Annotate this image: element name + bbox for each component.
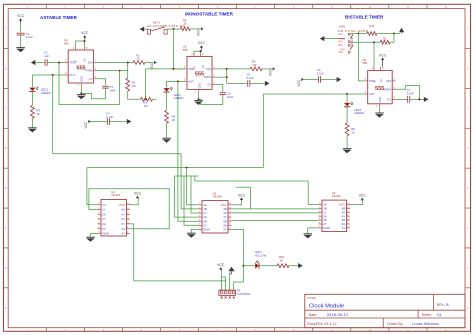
ground	[16, 47, 25, 49]
wire U3 3B to U4 2B	[231, 219, 318, 221]
wire C3 to gnd	[81, 88, 105, 99]
LED LED2 GREEN	[166, 81, 168, 87]
pin 8 4Y stub	[126, 233, 129, 235]
wire to U3 1Y	[191, 176, 199, 213]
svg-text:1K: 1K	[36, 112, 40, 116]
timer IC U8 555	[368, 70, 393, 103]
port arrow up	[399, 28, 404, 33]
svg-text:A: A	[467, 28, 469, 31]
wire gnd U1	[80, 86, 82, 93]
svg-text:0.1uF: 0.1uF	[317, 71, 324, 75]
wire CV to C7	[396, 98, 408, 100]
svg-text:R7: R7	[383, 36, 387, 40]
svg-text:GND: GND	[102, 232, 108, 236]
svg-text:3Y: 3Y	[102, 227, 106, 231]
wire R3 node to TRIG	[146, 68, 184, 70]
wire reset feed	[373, 42, 375, 67]
svg-text:CV: CV	[387, 98, 391, 102]
pin 8 VC stub	[200, 53, 202, 56]
pin 6 2Y stub	[319, 223, 322, 225]
node VCC U5	[200, 50, 202, 52]
wire	[243, 265, 255, 267]
svg-text:DIS: DIS	[206, 67, 211, 71]
node R3 junction	[145, 98, 147, 100]
svg-text:CONTROL: CONTROL	[237, 292, 251, 296]
pin 5 2B stub	[319, 219, 322, 221]
header P1 CONTROL body	[219, 290, 236, 295]
wire OUT left	[167, 80, 184, 82]
pin 11 4Y stub	[347, 215, 350, 217]
svg-text:R: R	[372, 80, 376, 82]
wire	[346, 136, 348, 149]
svg-text:GREEN: GREEN	[354, 111, 364, 115]
wire to P1	[134, 280, 226, 282]
svg-text:VCC: VCC	[268, 68, 272, 75]
svg-text:E: E	[5, 188, 7, 190]
pin 2 1B stub	[319, 207, 322, 209]
svg-text:THRS: THRS	[85, 69, 93, 73]
svg-text:5A: 5A	[122, 217, 126, 221]
svg-text:VCC: VCC	[134, 192, 142, 196]
svg-text:6Y: 6Y	[122, 212, 126, 216]
svg-text:EasyEDA V5.5.12: EasyEDA V5.5.12	[308, 322, 337, 326]
svg-text:2Y: 2Y	[102, 217, 106, 221]
svg-text:74LS32: 74LS32	[332, 194, 342, 198]
port arrow	[127, 119, 132, 124]
pin 3 1Y stub	[319, 211, 322, 213]
svg-text:OUT: OUT	[69, 73, 75, 77]
svg-text:D: D	[5, 148, 7, 150]
wire U3 4A to U4 1Y	[231, 212, 318, 214]
pin 2 1B stub	[199, 208, 202, 210]
wire U4 GND	[308, 228, 319, 234]
resistor R3 1M	[141, 97, 153, 101]
wire	[377, 33, 394, 35]
capacitor C1 1uF	[44, 59, 46, 66]
svg-text:GND: GND	[198, 83, 202, 89]
pin 7 GND stub	[319, 227, 322, 229]
wire U3 VCC	[231, 200, 241, 205]
pin 4 R stub	[193, 53, 195, 56]
svg-text:VC: VC	[201, 65, 205, 69]
wire to U3 2B	[178, 220, 199, 222]
wire	[31, 75, 33, 87]
pin 1 1A stub	[98, 204, 101, 206]
pin 14 VCC stub	[347, 204, 350, 206]
svg-text:74LS08: 74LS08	[213, 194, 223, 198]
wire DIS-THRS tie	[226, 69, 228, 77]
wire mid link	[194, 176, 196, 181]
node R11 junction	[393, 33, 395, 35]
capacitor C8 10nF	[220, 92, 227, 94]
pin 3 OUT stub	[364, 93, 367, 95]
svg-text:0.1uF: 0.1uF	[246, 76, 253, 80]
capacitor C6 0.1uF	[317, 76, 319, 83]
svg-text:E: E	[467, 188, 469, 190]
wire reset-to-vcc hook U1	[76, 41, 85, 47]
node TRIG junction	[58, 62, 60, 64]
svg-text:OUT: OUT	[369, 92, 375, 96]
pin 11 4Y stub	[228, 216, 231, 218]
svg-text:H: H	[467, 308, 469, 310]
svg-text:R11: R11	[369, 24, 374, 28]
wire to U3 2Y	[184, 176, 199, 225]
svg-text:4: 4	[191, 53, 193, 56]
svg-text:10nF: 10nF	[109, 89, 116, 93]
node LED4 junction	[242, 265, 244, 267]
pin 14 VCC stub	[126, 204, 129, 206]
wire U3 4B loop	[231, 187, 250, 209]
svg-text:0.1uF: 0.1uF	[26, 35, 33, 39]
capacitor C5 0.1uF	[247, 80, 249, 87]
wire trig feedback down	[58, 63, 60, 105]
pin 1 GND stub	[80, 83, 82, 86]
svg-text:TITLE:: TITLE:	[308, 296, 317, 300]
IC U2 74LS04 body	[101, 199, 126, 236]
svg-text:Sheet:: Sheet:	[422, 313, 432, 317]
wire	[180, 154, 182, 209]
wire	[145, 62, 154, 64]
svg-text:1: 1	[376, 105, 378, 108]
svg-text:GND: GND	[79, 76, 83, 82]
pin 13 4B stub	[228, 208, 231, 210]
svg-text:G: G	[5, 268, 7, 270]
IC U3 74LS08 body	[202, 201, 228, 233]
pin 5 2B stub	[199, 220, 202, 222]
node bus junction	[186, 167, 188, 169]
svg-text:F: F	[5, 228, 7, 230]
ground	[187, 232, 196, 234]
pin 2 TRIG stub	[65, 62, 68, 64]
resistor R4 1K	[31, 105, 35, 118]
svg-text:6A: 6A	[122, 208, 126, 212]
wire THRS	[97, 70, 128, 72]
node KEY1-TRIG junction	[173, 68, 175, 70]
svg-text:4: 4	[73, 47, 75, 50]
wire	[321, 79, 337, 81]
LED LED3 GREEN	[344, 103, 350, 106]
node DIS junction	[127, 62, 129, 64]
pin 12 6Y stub	[126, 213, 129, 215]
wire to C5	[227, 77, 247, 83]
wire	[48, 62, 65, 64]
wire	[259, 265, 277, 267]
port arrow	[265, 81, 270, 86]
wire sw2 to TRIG	[357, 34, 359, 81]
svg-text:1Y: 1Y	[102, 208, 106, 212]
node OUT junction	[177, 80, 179, 82]
wire NO1 to R7	[350, 41, 380, 43]
svg-text:1A: 1A	[102, 203, 106, 207]
ground	[28, 127, 37, 129]
pin 6 THRS stub	[212, 76, 215, 78]
pin 3 P1 pad	[228, 291, 231, 294]
svg-text:1K: 1K	[351, 131, 355, 135]
wire P1 pin3 arrow	[229, 272, 231, 290]
svg-text:555: 555	[183, 48, 188, 52]
svg-text:VCC: VCC	[359, 194, 367, 198]
svg-text:1M: 1M	[132, 84, 137, 88]
ground	[162, 137, 171, 139]
svg-text:B: B	[467, 68, 469, 70]
svg-text:C: C	[467, 108, 469, 110]
resistor R11 1k	[367, 32, 377, 36]
svg-text:5Y: 5Y	[122, 222, 126, 226]
port arrow (sw2 left)	[320, 36, 325, 41]
wire	[87, 204, 98, 206]
svg-text:R: R	[74, 60, 78, 62]
pin 5 CV stub	[392, 98, 395, 100]
wire P1 pin2	[222, 277, 226, 290]
svg-text:555: 555	[362, 61, 367, 65]
svg-text:VCC: VCC	[119, 203, 125, 207]
svg-text:GND: GND	[378, 97, 382, 103]
wire THRS stub	[215, 76, 226, 78]
wire U3 3Y to LED4	[231, 229, 243, 265]
node VCC U1	[84, 40, 86, 42]
svg-text:GREEN: GREEN	[174, 96, 184, 100]
ground	[304, 233, 313, 235]
svg-text:B: B	[446, 303, 449, 307]
ground	[194, 99, 203, 101]
node R7 junction	[373, 41, 375, 43]
pin 1 GND stub	[379, 104, 381, 107]
pin 3 OUT stub	[65, 74, 68, 76]
svg-text:VCC: VCC	[150, 62, 154, 69]
port arrow up (P1)	[228, 267, 234, 271]
wire DIS right	[215, 68, 250, 70]
wire astable out down	[52, 75, 54, 154]
wire	[394, 33, 400, 35]
port arrow	[337, 77, 342, 82]
node DIS junction	[226, 68, 228, 70]
wire bus to U3 1A	[186, 168, 188, 205]
port arrow	[298, 263, 303, 268]
title block outline	[305, 294, 465, 327]
svg-text:VCC: VCC	[238, 193, 246, 197]
node THRS junction	[226, 76, 228, 78]
wire R3 to monostable trig	[145, 69, 147, 99]
capacitor C3 10nF	[102, 85, 109, 87]
pin 1 1A stub	[319, 204, 322, 206]
svg-text:555: 555	[64, 41, 69, 45]
wire	[59, 104, 120, 106]
wire	[20, 22, 22, 32]
svg-text:1K: 1K	[172, 118, 176, 122]
pin 2 TRIG stub	[364, 80, 367, 82]
pin 10 5Y stub	[126, 223, 129, 225]
svg-text:1K: 1K	[280, 258, 284, 262]
svg-text:BISTABLE TIMER: BISTABLE TIMER	[345, 15, 384, 20]
svg-text:8: 8	[86, 47, 88, 50]
pin 10 3B stub	[228, 220, 231, 222]
pin 1 1A stub	[199, 204, 202, 206]
svg-text:2018-06-12: 2018-06-12	[327, 313, 348, 317]
wire	[304, 79, 318, 81]
wire NC1 to R11	[350, 33, 358, 35]
wire reset-to-vcc hook U5	[194, 51, 201, 53]
pin 5 CV stub	[212, 83, 215, 85]
svg-text:Drawn By:: Drawn By:	[387, 322, 404, 326]
pin 12 4A stub	[228, 212, 231, 214]
pin 9 3A stub	[228, 224, 231, 226]
title block row dividers	[305, 309, 465, 311]
resistor R1 1k	[133, 61, 145, 65]
svg-text:VCC: VCC	[84, 121, 88, 128]
wire	[109, 121, 126, 123]
node C7 junction	[418, 98, 420, 100]
resistor R9 1K	[165, 110, 169, 123]
wire	[390, 41, 394, 43]
pin 1 GND stub	[198, 89, 200, 92]
ground	[86, 236, 95, 238]
wire U2 1Y loop	[89, 189, 169, 229]
svg-text:0.1uF: 0.1uF	[407, 91, 414, 95]
svg-text:Date:: Date:	[309, 313, 317, 317]
wire mid horizontal lower	[195, 180, 308, 182]
wire	[20, 35, 22, 47]
pin 4 R stub	[373, 67, 375, 70]
IC U4 74LS32 body	[322, 200, 347, 232]
svg-text:1M: 1M	[144, 104, 149, 108]
svg-text:A2-601NBP-C45C-DR: A2-601NBP-C45C-DR	[147, 24, 186, 28]
wire LED4 to P1 pin4	[234, 266, 244, 290]
svg-text:ASTABLE TIMER: ASTABLE TIMER	[40, 15, 78, 20]
resistor R8 1K	[345, 123, 349, 136]
svg-text:GND: GND	[323, 226, 329, 230]
wire R2 bottom	[128, 91, 141, 99]
wire OUT left	[32, 74, 65, 76]
wire U4 VCC	[350, 200, 363, 204]
LED LED4 YELLOW	[255, 263, 258, 269]
svg-text:VCC: VCC	[197, 28, 201, 35]
svg-text:VCC: VCC	[198, 41, 206, 45]
pin 8 3Y stub	[347, 227, 350, 229]
wire	[346, 107, 348, 123]
wire to U4 1A	[308, 181, 319, 205]
svg-text:VCC: VCC	[217, 263, 225, 267]
wire R7 to R11	[393, 34, 395, 43]
pin 8 VC stub	[84, 47, 86, 50]
pin 4 P1 pad	[232, 291, 235, 294]
pin 7 DIS stub	[392, 80, 395, 82]
node LED3 junction	[346, 93, 348, 95]
pin 6 3Y stub	[98, 228, 101, 230]
pin 9 3A stub	[347, 223, 350, 225]
svg-text:THRS: THRS	[384, 87, 392, 91]
pin 4 2A stub	[319, 215, 322, 217]
pin 6 2Y stub	[199, 224, 202, 226]
wire	[346, 94, 348, 103]
wire KEY1 to TRIG	[174, 29, 184, 69]
svg-text:4Y: 4Y	[122, 232, 126, 236]
resistor R6 1M	[250, 67, 262, 71]
wire U3-U4 row	[251, 208, 319, 210]
wire mid horizontal upper	[175, 175, 199, 177]
wire bistable out down	[262, 94, 264, 168]
node THRS junction	[119, 70, 121, 72]
svg-text:C: C	[5, 108, 7, 110]
wire	[262, 68, 272, 70]
pin 2 P1 pad	[224, 291, 227, 294]
pin 7 DIS stub	[212, 68, 215, 70]
wire	[53, 153, 181, 155]
pin 3 1Y stub	[199, 212, 202, 214]
resistor R5 1k	[180, 27, 190, 31]
svg-text:REV:: REV:	[437, 303, 445, 307]
wire CV to C3	[97, 79, 106, 86]
wire	[91, 121, 108, 123]
capacitor C2 0.1uF	[17, 32, 25, 34]
port arrow (key1 left)	[140, 27, 145, 32]
wire	[358, 33, 367, 35]
wire CV to C8	[215, 84, 223, 92]
svg-text:G: G	[467, 268, 469, 270]
wire bistable out to bus	[87, 167, 263, 169]
wire	[166, 92, 168, 110]
wire	[31, 92, 33, 106]
wire	[153, 98, 157, 100]
wire	[190, 28, 200, 30]
svg-text:VC: VC	[379, 79, 383, 83]
svg-text:SW-PUSH-DPDT: SW-PUSH-DPDT	[338, 29, 369, 33]
port arrow	[424, 97, 429, 102]
pin 3 OUT stub	[184, 80, 187, 82]
svg-text:4: 4	[371, 67, 373, 70]
svg-text:1: 1	[195, 91, 197, 94]
switch KEY1 A2-601NBP-C45C-DR	[147, 30, 150, 35]
svg-text:B: B	[5, 68, 7, 70]
svg-text:Lucas Mattison: Lucas Mattison	[412, 322, 439, 326]
svg-text:4A: 4A	[122, 227, 126, 231]
svg-text:3A: 3A	[102, 222, 106, 226]
wire	[35, 62, 44, 64]
pin 13 4B stub	[347, 207, 350, 209]
resistor R10 1K	[277, 264, 289, 268]
capacitor C7 0.1uF	[407, 96, 409, 103]
wire THRS loop	[396, 85, 420, 99]
pin 14 VCC stub	[228, 204, 231, 206]
ground	[375, 112, 384, 114]
pin 4 R stub	[75, 47, 77, 50]
node KEY1 junction	[173, 28, 175, 30]
border ticks left/right	[4, 47, 9, 49]
pin 2 TRIG stub	[184, 68, 187, 70]
wire	[289, 265, 298, 267]
wire	[166, 123, 168, 138]
svg-text:1uF: 1uF	[44, 54, 49, 58]
svg-text:THRS: THRS	[203, 75, 211, 79]
wire	[144, 28, 147, 30]
pin 8 3Y stub	[228, 228, 231, 230]
capacitor C4 0.1uF	[106, 118, 108, 125]
pin 10 3B stub	[347, 219, 350, 221]
wire	[187, 204, 199, 206]
node SW2 top junction	[357, 33, 359, 35]
resistor R7 1M	[380, 40, 390, 44]
svg-text:D: D	[467, 148, 469, 150]
wire U2 GND	[91, 234, 98, 237]
ground	[77, 94, 86, 96]
svg-text:F: F	[467, 228, 469, 230]
svg-text:3Y: 3Y	[223, 228, 227, 232]
wire TRIG	[358, 80, 364, 82]
pin 4 2Y stub	[98, 218, 101, 220]
timer IC U1 555	[68, 50, 93, 83]
svg-text:GND: GND	[203, 228, 209, 232]
wire	[119, 71, 121, 105]
wire to U3 1B	[181, 208, 199, 210]
